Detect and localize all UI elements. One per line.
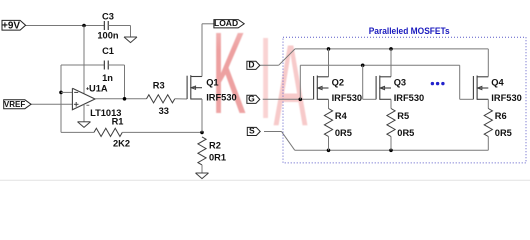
svg-text:D: D <box>248 60 254 70</box>
svg-text:LOAD: LOAD <box>214 18 238 28</box>
svg-text:R2: R2 <box>209 140 221 150</box>
svg-text:+9V: +9V <box>2 20 20 31</box>
svg-text:R6: R6 <box>495 111 507 121</box>
svg-text:Paralleled MOSFETs: Paralleled MOSFETs <box>369 26 450 36</box>
svg-text:0R1: 0R1 <box>209 153 226 163</box>
svg-text:33: 33 <box>159 106 169 116</box>
svg-text:Q1: Q1 <box>206 77 218 87</box>
svg-text:C1: C1 <box>102 46 114 56</box>
svg-text:0R5: 0R5 <box>397 128 414 138</box>
svg-text:Q2: Q2 <box>332 77 344 87</box>
svg-text:R4: R4 <box>335 111 348 121</box>
svg-text:Q4: Q4 <box>491 77 504 87</box>
svg-text:0R5: 0R5 <box>495 128 512 138</box>
svg-text:I: I <box>259 13 273 142</box>
svg-text:IRF530: IRF530 <box>491 93 522 103</box>
svg-text:G: G <box>248 94 255 104</box>
svg-text:1n: 1n <box>102 73 113 83</box>
svg-text:R5: R5 <box>397 111 409 121</box>
svg-text:U1A: U1A <box>89 83 108 93</box>
svg-text:100n: 100n <box>97 31 119 41</box>
svg-text:Q3: Q3 <box>394 77 406 87</box>
svg-text:S: S <box>249 126 255 136</box>
svg-text:0R5: 0R5 <box>335 128 352 138</box>
svg-text:2K2: 2K2 <box>113 139 130 149</box>
svg-text:R1: R1 <box>112 117 124 127</box>
svg-text:IRF530: IRF530 <box>206 92 237 102</box>
svg-text:A: A <box>274 21 308 150</box>
svg-text:IRF530: IRF530 <box>394 93 425 103</box>
svg-text:IRF530: IRF530 <box>332 93 363 103</box>
svg-text:VREF: VREF <box>4 100 25 109</box>
svg-text:R3: R3 <box>153 80 165 90</box>
svg-text:C3: C3 <box>102 11 114 21</box>
